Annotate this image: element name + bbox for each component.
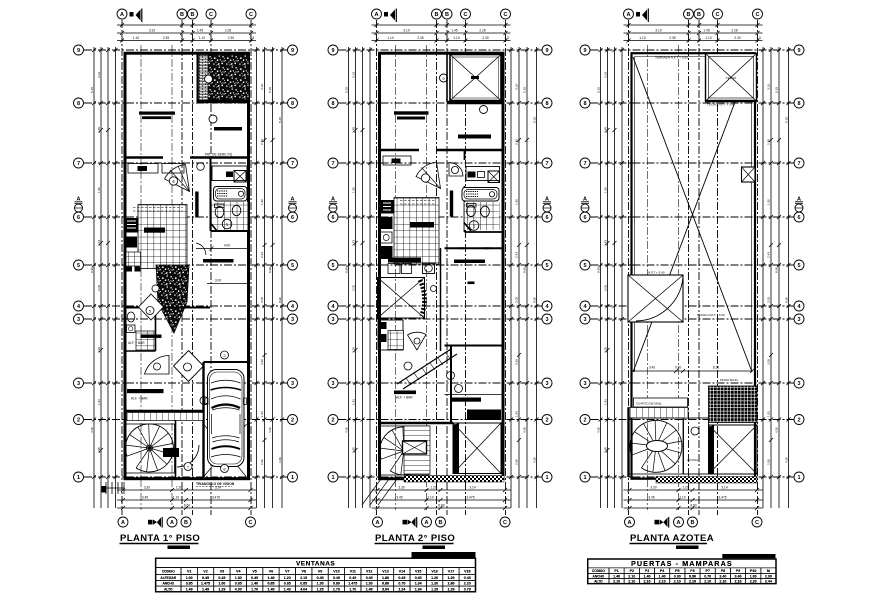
garage left wall <box>202 362 204 477</box>
closet diamond 2 <box>174 351 204 382</box>
svg-text:V1: V1 <box>187 569 191 573</box>
title plan 2 <box>375 533 456 549</box>
svg-text:TECHO: TECHO <box>726 76 737 80</box>
svg-text:8.10: 8.10 <box>713 366 719 370</box>
puertas table <box>588 559 776 584</box>
door fan hall <box>165 165 190 192</box>
grid frame plan 1 <box>74 9 298 528</box>
svg-text:1.40: 1.40 <box>644 574 651 578</box>
washer box <box>234 171 246 183</box>
svg-text:PAT. DE SERV. PQ: PAT. DE SERV. PQ <box>205 153 233 157</box>
svg-text:TRIANGULO DE VISION: TRIANGULO DE VISION <box>196 482 235 486</box>
bed room A <box>394 111 429 114</box>
svg-text:1.80: 1.80 <box>235 576 242 580</box>
wall y157 <box>127 156 251 159</box>
parapet inner lines <box>635 57 752 373</box>
small bath tiles <box>136 331 155 350</box>
svg-text:0.90: 0.90 <box>689 574 696 578</box>
svg-text:V2: V2 <box>203 569 207 573</box>
svg-text:1.475: 1.475 <box>348 582 357 586</box>
svg-text:ALF. + BAR: ALF. + BAR <box>396 396 413 400</box>
svg-text:2.10: 2.10 <box>659 580 666 584</box>
alf bar 2 <box>394 391 416 395</box>
chimney X box <box>742 167 756 182</box>
svg-text:P4: P4 <box>660 569 664 573</box>
car <box>205 370 247 467</box>
circle node <box>197 163 205 171</box>
svg-text:ALTO: ALTO <box>594 580 603 584</box>
entry wall <box>175 420 177 477</box>
bed room B <box>458 135 491 139</box>
entry door arc <box>177 445 199 467</box>
svg-text:1.00: 1.00 <box>218 582 225 586</box>
wall under garden <box>197 100 250 103</box>
kitchen fixtures dark 2 <box>381 200 395 214</box>
garden circle marker <box>205 75 213 83</box>
svg-text:1.40: 1.40 <box>366 587 373 591</box>
svg-text:V3: V3 <box>220 569 224 573</box>
stove dark <box>125 218 139 233</box>
svg-text:2.10: 2.10 <box>628 574 635 578</box>
outer walls <box>125 53 249 479</box>
svg-text:2.10: 2.10 <box>613 580 620 584</box>
straight treads 2 <box>404 426 430 474</box>
svg-text:V17: V17 <box>448 569 454 573</box>
closet diamond 1 <box>139 294 164 320</box>
interior line y283 <box>207 283 250 285</box>
svg-text:0.45: 0.45 <box>251 576 258 580</box>
circle stair2 <box>447 372 455 380</box>
svg-text:P6: P6 <box>690 569 694 573</box>
laundry sink dark <box>226 172 233 178</box>
roof diagonals bottom left 2 <box>362 479 397 505</box>
machine room label box <box>634 398 688 407</box>
grid frame plan 2 <box>328 9 552 528</box>
svg-text:0.45: 0.45 <box>398 576 405 580</box>
spiral stair 3 <box>629 418 683 474</box>
svg-text:3.00: 3.00 <box>215 279 221 283</box>
door circle 6 <box>169 177 177 185</box>
partition x440 <box>440 248 442 351</box>
wall y150 <box>381 149 504 151</box>
svg-text:V7: V7 <box>285 569 289 573</box>
svg-text:1.70: 1.70 <box>251 587 258 591</box>
thin line y394 <box>445 394 504 396</box>
circle 3 <box>200 397 208 405</box>
kitchen tile floor 2 <box>394 198 439 265</box>
small bath toilet <box>127 312 135 322</box>
void X box top right <box>450 55 501 101</box>
svg-text:P5: P5 <box>675 569 679 573</box>
svg-text:1.80: 1.80 <box>382 576 389 580</box>
svg-text:2.10: 2.10 <box>735 580 742 584</box>
proyeccion black label <box>467 410 501 421</box>
washer dark <box>468 172 476 178</box>
svg-text:1.40: 1.40 <box>613 574 620 578</box>
svg-text:2.10: 2.10 <box>704 580 711 584</box>
wall y307 <box>127 307 211 309</box>
puertas table <box>588 559 776 584</box>
svg-text:2.20: 2.20 <box>750 580 757 584</box>
circle 2 <box>221 351 229 359</box>
kitchen tile floor <box>138 205 187 269</box>
svg-text:1.20: 1.20 <box>448 576 455 580</box>
circle stair <box>404 362 412 370</box>
stair zone top wall 2 <box>381 422 454 424</box>
door fan sala <box>145 356 170 375</box>
X room bottom right 3 <box>709 425 758 474</box>
svg-text:1.29: 1.29 <box>218 587 225 591</box>
svg-text:ALFEIZAR: ALFEIZAR <box>160 576 176 580</box>
fan door lower bath 2 <box>408 332 427 350</box>
svg-text:1.25: 1.25 <box>317 587 324 591</box>
svg-text:ALTO: ALTO <box>164 587 173 591</box>
circle 8 <box>221 465 229 473</box>
svg-text:2.44: 2.44 <box>765 580 772 584</box>
svg-text:1.80: 1.80 <box>448 582 455 586</box>
wall under skylight <box>705 100 757 103</box>
sidewalk steps left <box>106 482 124 494</box>
svg-text:ANCHO: ANCHO <box>593 574 605 578</box>
circle 1 plan2 <box>469 221 479 231</box>
svg-text:0.70: 0.70 <box>398 582 405 586</box>
svg-text:CODIGO: CODIGO <box>592 569 605 573</box>
svg-text:0.85: 0.85 <box>235 582 242 586</box>
bed bar mid <box>450 398 481 402</box>
svg-text:3.40: 3.40 <box>735 574 742 578</box>
spiral stair 2 <box>380 426 429 475</box>
bathtub 2 <box>462 188 499 202</box>
ventanas table <box>156 558 476 592</box>
svg-text:2.10: 2.10 <box>674 580 681 584</box>
svg-text:V14: V14 <box>399 569 405 573</box>
kitchen bar dark 2 <box>410 222 434 228</box>
svg-text:1.00: 1.00 <box>186 576 193 580</box>
garden patch speckle <box>156 265 189 333</box>
svg-text:1.30: 1.30 <box>317 582 324 586</box>
waffle roof hatch <box>709 386 758 423</box>
svg-text:0.85: 0.85 <box>284 582 291 586</box>
bar room 2 <box>214 127 242 131</box>
svg-text:N.P.T + 5.40: N.P.T + 5.40 <box>648 271 665 275</box>
curved stair band 2 <box>420 280 424 316</box>
svg-text:V16: V16 <box>431 569 437 573</box>
svg-text:1.70: 1.70 <box>349 587 356 591</box>
stair newel dark <box>163 448 179 457</box>
svg-text:0.85: 0.85 <box>268 582 275 586</box>
svg-text:1.29: 1.29 <box>431 587 438 591</box>
stair enclosure walls 3 <box>627 408 629 478</box>
bath chamfer corner 2 <box>464 223 471 232</box>
laundry fixtures <box>126 267 132 272</box>
outer walls <box>632 53 756 479</box>
small bath walls <box>127 308 156 352</box>
svg-text:1.40: 1.40 <box>268 576 275 580</box>
svg-text:TECHO N.P.T + 5.60: TECHO N.P.T + 5.60 <box>697 313 725 317</box>
svg-text:M: M <box>767 569 770 573</box>
stair landing treads <box>127 413 203 421</box>
svg-text:V15: V15 <box>415 569 421 573</box>
svg-text:0.45: 0.45 <box>218 576 225 580</box>
wall left of garden <box>197 54 199 102</box>
svg-text:1.40: 1.40 <box>251 582 258 586</box>
door fan bath2 <box>449 163 463 177</box>
svg-text:ANCHO: ANCHO <box>162 582 174 586</box>
svg-text:2.10: 2.10 <box>628 580 635 584</box>
void X court 2 <box>378 278 425 319</box>
bath partition wall <box>465 150 504 232</box>
svg-text:2.10: 2.10 <box>719 580 726 584</box>
svg-text:V6: V6 <box>269 569 273 573</box>
svg-text:V5: V5 <box>252 569 256 573</box>
stair oval island <box>647 441 668 452</box>
svg-text:0.80: 0.80 <box>382 582 389 586</box>
outer walls <box>380 53 504 479</box>
svg-text:MURO BAJO: MURO BAJO <box>720 378 739 382</box>
lower bath 2 <box>378 320 403 350</box>
bath chamfer corner <box>211 223 218 232</box>
svg-text:V4: V4 <box>236 569 240 573</box>
toilet <box>215 204 225 208</box>
svg-text:P2: P2 <box>630 569 634 573</box>
svg-text:V18: V18 <box>464 569 470 573</box>
svg-text:1.20: 1.20 <box>431 582 438 586</box>
svg-text:PROYECC.: PROYECC. <box>470 414 489 418</box>
svg-text:ALF. + BAR: ALF. + BAR <box>128 341 145 345</box>
terrace big X <box>633 57 752 372</box>
svg-text:0.79: 0.79 <box>464 587 471 591</box>
wall bath partition <box>211 158 251 232</box>
wall under void <box>447 101 504 105</box>
svg-text:0.70: 0.70 <box>704 574 711 578</box>
title plan 3 <box>630 533 715 549</box>
svg-text:V11: V11 <box>350 569 356 573</box>
svg-text:VENTANAS: VENTANAS <box>296 561 335 568</box>
laundry room outline <box>212 166 247 181</box>
svg-text:1.40: 1.40 <box>284 587 291 591</box>
kitchen counter dashed 2 <box>400 201 436 205</box>
svg-text:AZOTEA: AZOTEA <box>687 458 698 462</box>
svg-text:0.45: 0.45 <box>464 576 471 580</box>
X room bottom right 2 <box>453 423 501 474</box>
stair treads band 3 <box>628 408 688 419</box>
puertas table black bar <box>722 554 775 558</box>
window sill rects 2 <box>383 156 411 165</box>
svg-text:1.20: 1.20 <box>284 576 291 580</box>
svg-text:1.49: 1.49 <box>202 587 209 591</box>
bed front room <box>139 112 175 115</box>
svg-text:1.34: 1.34 <box>415 587 422 591</box>
bar alf <box>141 335 162 338</box>
mid wall x451 <box>450 346 452 424</box>
garage top wall <box>204 361 251 363</box>
svg-text:ALF. + BAR: ALF. + BAR <box>131 397 148 401</box>
laundry tiles <box>126 252 141 266</box>
svg-text:4.04: 4.04 <box>300 587 307 591</box>
svg-text:1.30: 1.30 <box>366 582 373 586</box>
svg-text:V8: V8 <box>301 569 305 573</box>
svg-text:1.475: 1.475 <box>201 582 210 586</box>
svg-text:0.45: 0.45 <box>202 576 209 580</box>
skylight box top right <box>706 54 757 102</box>
bath floor tiles 2 <box>465 202 500 230</box>
svg-text:2.00: 2.00 <box>765 574 772 578</box>
bath floor tiles <box>212 202 248 230</box>
svg-text:1.49: 1.49 <box>186 587 193 591</box>
stair top wall <box>127 410 204 412</box>
svg-text:0.45: 0.45 <box>333 576 340 580</box>
sala bar <box>127 389 164 393</box>
door fan hall2 <box>416 162 441 189</box>
spiral stair <box>125 424 173 472</box>
spiral stair outline <box>126 424 175 473</box>
corridor wall stub <box>195 192 198 218</box>
mid room outline <box>684 418 709 474</box>
svg-text:TERRAZA N.P.T + 5.60: TERRAZA N.P.T + 5.60 <box>655 56 688 60</box>
washer X box <box>488 171 500 183</box>
svg-text:P1: P1 <box>614 569 618 573</box>
svg-text:3.40: 3.40 <box>719 574 726 578</box>
svg-text:TECHO N.P.T + 5.40: TECHO N.P.T + 5.40 <box>707 103 735 107</box>
svg-text:0.90: 0.90 <box>674 574 681 578</box>
bench near bath <box>203 259 234 263</box>
svg-text:0.85: 0.85 <box>186 582 193 586</box>
counter dark <box>125 237 138 248</box>
ventanas table black bar <box>412 552 476 558</box>
svg-text:0.45: 0.45 <box>415 576 422 580</box>
svg-text:4.00: 4.00 <box>224 244 230 248</box>
svg-text:CODIGO: CODIGO <box>162 569 175 573</box>
wall left of void <box>446 54 448 102</box>
small bath sink <box>127 325 136 333</box>
svg-text:1.34: 1.34 <box>415 582 422 586</box>
svg-text:2.15: 2.15 <box>300 576 307 580</box>
svg-text:0.85: 0.85 <box>300 582 307 586</box>
ventanas table <box>156 558 476 592</box>
svg-text:0.45: 0.45 <box>366 576 373 580</box>
svg-text:3.04: 3.04 <box>382 587 389 591</box>
bathtub <box>214 187 248 202</box>
title plan 1 <box>120 533 201 549</box>
diagonal stair band <box>397 349 457 389</box>
svg-text:P10: P10 <box>750 569 756 573</box>
svg-text:1.40: 1.40 <box>659 574 666 578</box>
circle 1 <box>222 219 232 229</box>
svg-text:1.00: 1.00 <box>750 574 757 578</box>
toilet 2 <box>467 205 476 216</box>
svg-text:V13: V13 <box>382 569 388 573</box>
svg-text:0.45: 0.45 <box>317 576 324 580</box>
svg-text:1.70: 1.70 <box>333 587 340 591</box>
laundry room outline 2 <box>466 167 500 181</box>
svg-text:P8: P8 <box>721 569 725 573</box>
stair void skylight <box>628 275 683 322</box>
wall y345 <box>445 345 504 347</box>
kitchen bar dark <box>144 228 165 233</box>
svg-text:0.80: 0.80 <box>333 582 340 586</box>
svg-text:2.20: 2.20 <box>464 582 471 586</box>
svg-text:V9: V9 <box>318 569 322 573</box>
svg-text:PLANTA 2° PISO: PLANTA 2° PISO <box>375 533 455 544</box>
svg-text:2.10: 2.10 <box>689 580 696 584</box>
stair core X box <box>403 441 427 454</box>
bidet 2 <box>481 206 490 217</box>
svg-text:V12: V12 <box>366 569 372 573</box>
wall y248 right <box>445 247 504 249</box>
svg-text:0.30: 0.30 <box>675 366 681 370</box>
svg-text:1.34: 1.34 <box>398 587 405 591</box>
puertas table black bar <box>722 554 775 558</box>
dotted strip 2 <box>404 476 504 483</box>
ventanas table black bar <box>412 552 476 558</box>
svg-text:0.45: 0.45 <box>349 576 356 580</box>
svg-text:1.40: 1.40 <box>268 587 275 591</box>
svg-text:1.29: 1.29 <box>448 587 455 591</box>
kitchen counter dashed <box>133 208 183 212</box>
svg-text:P7: P7 <box>705 569 709 573</box>
svg-text:4.00: 4.00 <box>235 587 242 591</box>
svg-text:1.20: 1.20 <box>431 576 438 580</box>
svg-text:P3: P3 <box>645 569 649 573</box>
svg-text:CUARTO DE MAQ.: CUARTO DE MAQ. <box>636 402 662 406</box>
svg-text:PLANTA 1° PISO: PLANTA 1° PISO <box>120 533 200 544</box>
svg-text:PLANTA AZOTEA: PLANTA AZOTEA <box>630 533 714 544</box>
kitchen bottom appliances 2 <box>388 258 421 263</box>
svg-text:2.10: 2.10 <box>644 580 651 584</box>
svg-text:P9: P9 <box>736 569 740 573</box>
garage floor X <box>204 424 247 477</box>
grid frame plan 3 <box>580 9 804 528</box>
interior dim line y248 <box>196 247 250 251</box>
garden brick band <box>199 55 208 102</box>
window sill rects <box>128 164 158 174</box>
svg-text:V10: V10 <box>333 569 339 573</box>
dotted strip 3 <box>656 477 757 484</box>
bidet <box>232 205 241 215</box>
svg-text:PUERTAS - MAMPARAS: PUERTAS - MAMPARAS <box>631 559 733 568</box>
internal dim line <box>633 370 752 372</box>
svg-text:3.40: 3.40 <box>649 366 655 370</box>
corridor wall stub 2 <box>450 191 453 217</box>
garden speckle hatch <box>208 55 249 102</box>
bottom room bar 2 <box>454 260 485 264</box>
